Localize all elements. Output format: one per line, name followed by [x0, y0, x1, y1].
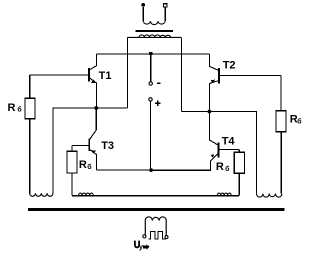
- wire collector rail: [96, 53, 209, 55]
- resistor R6 left: [25, 75, 35, 193]
- wire mid windings bus: [72, 195, 239, 197]
- terminal TV1 right: [165, 236, 168, 239]
- svg-text:б: б: [87, 163, 92, 171]
- wire winding left leg to node B: [181, 112, 256, 194]
- wire secondary right lead: [164, 7, 166, 21]
- svg-text:у: у: [139, 242, 144, 251]
- wire winding to node A: [53, 108, 127, 193]
- svg-text:R: R: [8, 102, 16, 114]
- core TV1 bar: [28, 208, 285, 211]
- wire primary right end down to node B: [180, 37, 182, 111]
- control pulse waveform: [149, 231, 167, 239]
- transistor T2: [209, 54, 219, 112]
- svg-text:T1: T1: [99, 70, 112, 82]
- svg-text:T4: T4: [222, 135, 236, 147]
- transistor T1: [88, 54, 96, 108]
- winding right (base drive T2): [257, 194, 282, 198]
- core TV2: [136, 30, 173, 32]
- transformer TV2 secondary terminal square: [164, 4, 167, 7]
- winding TV2 secondary: [143, 21, 165, 24]
- resistor R6 mid-left: [67, 145, 77, 195]
- winding left (base drive T1): [30, 193, 53, 196]
- winding TV1 primary: [145, 217, 166, 236]
- label minus: [157, 82, 161, 84]
- label pulse icon: [143, 244, 149, 249]
- wire T3 base: [72, 144, 88, 146]
- svg-text:R: R: [79, 159, 87, 171]
- wire T2 base: [220, 74, 281, 76]
- node center tap: [149, 52, 152, 55]
- svg-text:R: R: [216, 161, 224, 173]
- wire center tap to minus terminal: [150, 54, 152, 82]
- wire emitter node T3/T4 to plus: [97, 169, 211, 171]
- terminal plus: [149, 98, 152, 101]
- svg-text:T2: T2: [223, 59, 236, 71]
- node plus junction dot: [149, 168, 153, 172]
- wire primary left end down to node A: [126, 37, 128, 108]
- svg-text:б: б: [297, 117, 302, 125]
- label Uy: [135, 241, 139, 248]
- wire secondary left lead: [142, 7, 144, 21]
- svg-text:б: б: [225, 165, 230, 173]
- node B junction dot: [208, 110, 212, 114]
- label plus: [155, 101, 161, 106]
- winding TV2 primary: [127, 35, 181, 38]
- svg-text:б: б: [17, 105, 22, 113]
- terminal minus: [149, 82, 152, 85]
- winding mid-right (base drive T4): [217, 193, 231, 196]
- wire plus terminal to emitter node: [150, 101, 152, 170]
- transistor T3: [88, 108, 96, 170]
- resistor R6 right: [276, 75, 286, 193]
- wire T1 base: [30, 74, 88, 76]
- winding mid-left (base drive T3): [79, 193, 94, 196]
- wire T4 base: [219, 148, 239, 150]
- svg-text:T3: T3: [101, 140, 114, 152]
- transformer TV2 secondary terminal dot: [141, 3, 145, 7]
- terminal TV1 left: [143, 235, 146, 238]
- transistor T4: [151, 112, 219, 171]
- resistor R6 mid-right: [234, 149, 244, 195]
- node A junction dot: [94, 106, 98, 110]
